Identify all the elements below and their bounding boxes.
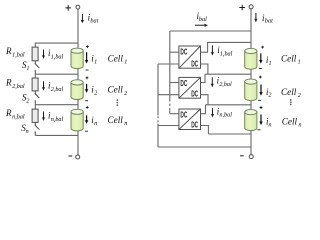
label i1 right (266, 55, 272, 67)
wire left main vertical top (77, 9, 79, 48)
label Cell1 left (108, 53, 128, 65)
svg-text:n: n (298, 122, 301, 129)
wire dc2 left top pin (170, 82, 179, 84)
wire left between cell2 celln (77, 100, 79, 110)
svg-text:bat: bat (265, 18, 273, 25)
label Celln right (282, 117, 302, 129)
label R1,bal (5, 46, 25, 59)
positive terminal left (65, 5, 79, 11)
wire node2 left (35, 104, 78, 106)
label S1 (22, 60, 29, 72)
svg-text:1: 1 (26, 65, 29, 72)
wire dc1 left top pin (170, 51, 179, 53)
label in,bal left (48, 110, 64, 123)
label i_bat left (88, 13, 99, 25)
current arrow in celln left (85, 115, 88, 124)
cell Cell2 right (245, 76, 262, 101)
current arrow i2 cell2 right (259, 85, 262, 96)
svg-text:bat: bat (90, 18, 98, 25)
label i_bat right (262, 13, 273, 25)
svg-text:1: 1 (124, 58, 127, 65)
cell Cell1 right (245, 46, 264, 69)
cell Celln right (245, 106, 263, 130)
svg-text:1,bal: 1,bal (51, 53, 64, 60)
svg-text:R: R (5, 46, 12, 56)
wire bottom rail right (158, 146, 251, 148)
wire dc3 left bottom pin (158, 125, 179, 127)
wire top rail right (170, 30, 251, 32)
wire dc2 right top riser (201, 74, 206, 82)
label i_bal (197, 11, 208, 23)
svg-text:2: 2 (124, 90, 127, 97)
wire dc1 right top riser (201, 42, 252, 52)
svg-text:Cell: Cell (108, 53, 124, 63)
wire node1 left (35, 73, 78, 75)
svg-text:1,bal: 1,bal (220, 50, 233, 57)
wire branchn top stub (34, 105, 36, 109)
wire dc2 left bottom pin (158, 94, 179, 96)
label i1 left (91, 54, 97, 66)
label Celln left (108, 115, 128, 127)
current arrow i1 cell1 left (85, 52, 88, 63)
resistor Rn,bal (32, 109, 38, 122)
label i1,bal right (217, 45, 232, 57)
wire left between cell1 cell2 (77, 69, 79, 80)
current arrow i1,bal right (211, 45, 214, 55)
current arrow i2,bal right (211, 77, 214, 87)
dc-dc converter 1 (179, 46, 201, 68)
wire dc2 right bottom riser (201, 95, 209, 105)
cell Cell2 left (71, 76, 88, 100)
bus B lower section (157, 124, 159, 148)
svg-text:1: 1 (94, 59, 97, 66)
wire right between cell2 celln (250, 101, 252, 110)
svg-text:2: 2 (268, 92, 271, 99)
svg-text:1: 1 (298, 58, 301, 65)
svg-text:2,bal: 2,bal (12, 83, 25, 90)
current arrow i2,bal left (42, 81, 45, 90)
svg-text:1,bal: 1,bal (12, 51, 25, 58)
label in,bal right (217, 106, 232, 118)
svg-text:n: n (26, 128, 29, 135)
svg-text:bal: bal (199, 16, 207, 23)
negative terminal right (240, 155, 253, 159)
svg-text:Cell: Cell (108, 85, 124, 95)
current arrow in,bal left (42, 112, 45, 121)
current arrow in celln right (259, 115, 262, 126)
cell Cell1 left (71, 45, 89, 70)
svg-text:DC: DC (180, 78, 187, 88)
switch S2 (35, 91, 40, 105)
svg-text:n: n (94, 120, 97, 127)
wire right between cell1 cell2 (250, 69, 252, 79)
current arrow i_bat left (81, 14, 84, 23)
bus B dashed continuation (157, 116, 159, 122)
ellipsis dots left (116, 99, 118, 106)
label Rn,bal (5, 108, 25, 121)
label i2,bal left (48, 81, 64, 93)
svg-text:2: 2 (26, 98, 29, 105)
current arrow i1 cell1 right (259, 53, 262, 63)
current arrow i_bal (195, 24, 208, 27)
bus A dashed continuation (169, 104, 171, 111)
wire dc3 right top riser (201, 105, 206, 114)
label i2,bal right (217, 75, 232, 87)
label i2 left (91, 84, 97, 96)
svg-text:n,bal: n,bal (51, 116, 64, 123)
label Cell2 right (281, 87, 301, 99)
svg-text:2,bal: 2,bal (51, 86, 64, 93)
wire noden right (208, 133, 251, 135)
cell Celln left (71, 106, 89, 131)
svg-text:DC: DC (180, 47, 187, 57)
svg-text:DC: DC (180, 110, 187, 120)
bus A vertical (169, 31, 171, 102)
wire dc3 right bottom riser (201, 126, 209, 135)
wire dc1 right bottom riser (201, 64, 208, 74)
svg-text:DC: DC (191, 88, 198, 98)
switch Sn (35, 122, 40, 135)
wire branch1 top horizontal (35, 43, 78, 47)
label in right (266, 117, 271, 129)
resistor R2,bal (32, 78, 38, 91)
svg-text:n: n (268, 121, 271, 128)
wire branch2 top stub (34, 74, 36, 78)
negative terminal left (68, 155, 79, 159)
svg-text:n,bal: n,bal (12, 113, 25, 120)
current arrow in,bal right (211, 108, 214, 117)
svg-text:Cell: Cell (108, 115, 124, 125)
current arrow i_bat right (254, 13, 257, 22)
resistor R1,bal (32, 47, 38, 61)
label R2,bal (5, 77, 25, 90)
svg-text:n: n (124, 120, 127, 127)
wire right main vertical bottom (250, 131, 252, 155)
wire left main vertical bottom (77, 131, 79, 155)
wire node1 right (205, 73, 251, 75)
label Cell2 left (108, 85, 128, 97)
svg-text:DC: DC (191, 120, 198, 130)
svg-text:R: R (5, 77, 12, 87)
svg-text:Cell: Cell (282, 117, 298, 127)
switch S1 (35, 61, 40, 74)
current arrow i2 cell2 left (85, 84, 88, 93)
svg-text:2,bal: 2,bal (219, 81, 232, 88)
wire right main vertical top (250, 9, 252, 49)
dc-dc converter 2 (179, 77, 201, 98)
svg-text:1: 1 (269, 60, 272, 67)
bus A lower stub (169, 111, 171, 114)
svg-text:Cell: Cell (281, 87, 297, 97)
svg-text:2: 2 (298, 92, 301, 99)
label in left (91, 115, 97, 127)
label Cell1 right (281, 53, 301, 65)
wire node2 right (206, 104, 252, 106)
label i2 right (266, 87, 271, 99)
svg-text:R: R (5, 108, 12, 118)
dc-dc converter n (179, 109, 201, 130)
svg-text:Cell: Cell (281, 53, 297, 63)
label Sn (21, 123, 28, 135)
label i1,bal left (48, 48, 64, 60)
current arrow i1,bal left (42, 50, 45, 59)
svg-text:DC: DC (191, 58, 198, 68)
label S2 (22, 92, 29, 104)
svg-text:n,bal: n,bal (219, 112, 232, 119)
ellipsis dots right (290, 99, 292, 105)
svg-text:2: 2 (94, 89, 97, 96)
wire noden left (35, 134, 78, 136)
wire dc3 left top pin (170, 113, 179, 115)
wire dc1 left bottom pin (158, 63, 179, 65)
bus B vertical (157, 64, 159, 115)
positive terminal right (239, 5, 253, 11)
